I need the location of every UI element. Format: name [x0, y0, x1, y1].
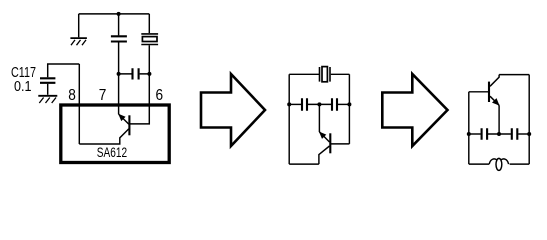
- svg-text:0.1: 0.1: [14, 79, 32, 95]
- capacitor C1 divider (left): [289, 98, 307, 111]
- big arrow 2: [382, 74, 447, 146]
- crystal X1: [141, 14, 158, 45]
- capacitor C_b feedback (horizontal): [119, 68, 150, 79]
- wire emitter drop: [318, 104, 320, 132]
- wire top rail right segment: [331, 73, 350, 75]
- transistor Q2: [319, 132, 350, 165]
- wire top rail (right circuit): [499, 74, 529, 76]
- node dot pin6/feedback cap: [147, 72, 151, 76]
- capacitor C2 divider (right): [332, 98, 349, 111]
- capacitor C117: [40, 78, 55, 95]
- svg-text:6: 6: [156, 87, 164, 104]
- capacitor C3 (left): [469, 128, 511, 140]
- wire C117 top rail: [48, 64, 80, 77]
- wire top rail (left circuit): [79, 13, 150, 15]
- op-amp/mixer IC U1 SA612 box: [61, 105, 169, 163]
- node junction on top rail: [117, 12, 121, 16]
- transistor Q1 (internal oscillator): [79, 114, 129, 144]
- transistor Q3: [489, 75, 500, 106]
- wire ground stub: [78, 14, 80, 37]
- wire bottom rail (middle circuit): [289, 163, 319, 165]
- crystal X2 (horizontal): [320, 67, 331, 82]
- svg-text:7: 7: [99, 87, 107, 104]
- node dot pin7/feedback cap: [117, 72, 121, 76]
- ground (top left): [70, 38, 87, 45]
- wire right vertical (right circuit): [528, 75, 530, 165]
- wire emitter vertical: [498, 105, 500, 134]
- node dot center: [497, 132, 501, 136]
- wire right vertical (middle circuit): [348, 74, 350, 144]
- wire bottom rail right (right circuit): [510, 163, 530, 165]
- wire cap rail middle segment: [308, 103, 331, 105]
- node dot left: [467, 132, 471, 136]
- svg-text:8: 8: [68, 87, 76, 104]
- capacitor C_a on pin 7 line: [111, 14, 127, 42]
- wire pin 6 (into SA612 to base): [130, 45, 149, 124]
- wire top rail left segment (middle circuit): [289, 73, 319, 75]
- big arrow 1: [201, 74, 265, 146]
- capacitor C4 (right): [512, 128, 529, 140]
- node dot right: [347, 102, 351, 106]
- svg-text:SA612: SA612: [97, 144, 127, 160]
- wire pin 7 (into SA612 to emitter): [118, 42, 120, 114]
- node dot center tap: [317, 102, 321, 106]
- inductor L1: [489, 158, 508, 170]
- ground (under C117): [38, 96, 57, 103]
- wire pin 8 (Vcc into SA612): [78, 64, 80, 144]
- wire base lead (right circuit): [469, 91, 488, 93]
- wire left vertical (middle circuit): [288, 74, 290, 164]
- wire bottom rail left (right circuit): [469, 163, 489, 165]
- node dot right: [527, 132, 531, 136]
- wire left vertical (right circuit): [468, 92, 470, 164]
- node dot left: [287, 102, 291, 106]
